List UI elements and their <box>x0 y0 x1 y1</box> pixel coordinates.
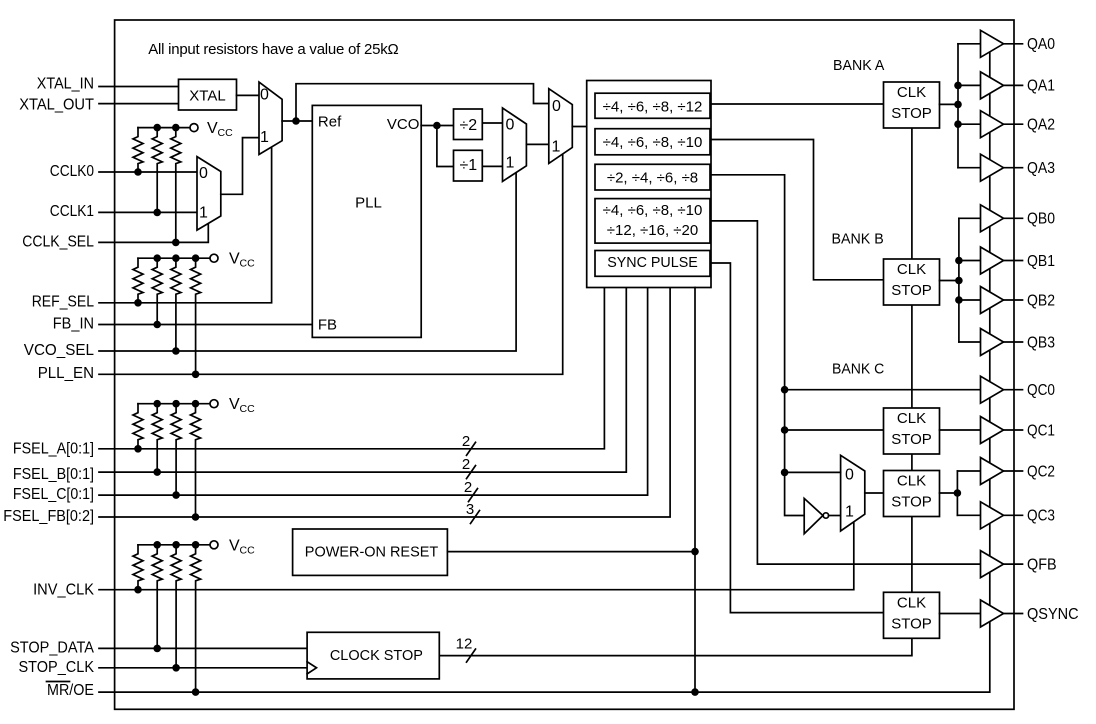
resistor R7 (PLL_EN pull-up) <box>191 258 201 374</box>
svg-text:MR/OE: MR/OE <box>47 682 94 699</box>
wire bank C bus to QC0 buffer <box>785 389 981 391</box>
wire CLK STOP C2 output <box>940 492 958 494</box>
svg-text:BANK A: BANK A <box>833 57 884 74</box>
svg-text:FSEL_FB[0:2]: FSEL_FB[0:2] <box>3 508 94 525</box>
VCC rail 1 <box>138 127 190 129</box>
output buffer QC1 <box>981 417 1023 444</box>
wire inverter output to mux U5 input 1 <box>829 515 841 517</box>
CLK STOP B block <box>884 259 940 305</box>
output buffer QB3 <box>981 329 1023 356</box>
wire Ref node to mux U4 input 0 <box>296 84 549 121</box>
svg-text:XTAL: XTAL <box>189 87 225 104</box>
divider V1 (/2) <box>454 109 483 140</box>
resistor R13 (STOP_DATA pull-up) <box>152 545 162 649</box>
wire bank C bus to CLK STOP C1 <box>785 429 884 431</box>
svg-text:÷4, ÷6, ÷8, ÷12: ÷4, ÷6, ÷8, ÷12 <box>603 98 703 115</box>
resistor R4 (REF_SEL pull-up) <box>133 258 143 303</box>
svg-text:CCLK0: CCLK0 <box>50 163 94 180</box>
bus slash 12 <box>467 649 476 662</box>
svg-text:÷1: ÷1 <box>459 157 477 174</box>
junction bank B bus QB2 <box>955 296 963 304</box>
junction FSEL_C-R10 <box>172 491 180 499</box>
XTAL oscillator block <box>179 79 237 110</box>
svg-text:CC: CC <box>240 258 256 270</box>
svg-text:CC: CC <box>240 544 256 556</box>
svg-text:0: 0 <box>199 165 208 182</box>
svg-text:0: 0 <box>552 98 561 115</box>
wire clock-stop chain B-C1 <box>911 303 913 408</box>
wire mux U5 output to CLK STOP C2 <box>865 492 885 494</box>
junction STOP_DATA-R13 <box>153 645 161 653</box>
output buffer QSYNC <box>981 600 1023 627</box>
svg-text:REF_SEL: REF_SEL <box>32 294 94 311</box>
junction bank C bus - QC0 <box>781 386 789 394</box>
svg-text:1: 1 <box>552 139 561 156</box>
svg-text:0: 0 <box>845 467 854 484</box>
wire MR/OE output-enable line up right side <box>99 51 990 693</box>
svg-text:÷12, ÷16, ÷20: ÷12, ÷16, ÷20 <box>607 222 698 239</box>
output buffer QA3 <box>981 154 1023 181</box>
svg-text:÷4, ÷6, ÷8, ÷10: ÷4, ÷6, ÷8, ÷10 <box>603 202 703 219</box>
junction bank A bus QA1 <box>954 82 962 90</box>
wire FB_IN to PLL FB pin <box>99 324 312 326</box>
divider row B (/4 /6 /8 /10) <box>595 129 710 155</box>
svg-text:XTAL_IN: XTAL_IN <box>37 75 94 92</box>
svg-text:QC3: QC3 <box>1027 508 1055 525</box>
VCC terminal 1 <box>190 120 233 139</box>
junction FSEL_A-R8 <box>134 445 142 453</box>
svg-text:STOP: STOP <box>891 105 932 122</box>
svg-text:1: 1 <box>199 205 208 222</box>
VCC terminal 2 <box>210 251 255 270</box>
svg-text:QB2: QB2 <box>1027 292 1055 309</box>
output buffer QB1 <box>981 247 1023 274</box>
wire VCO node to divider V2 <box>437 126 454 167</box>
junction rail3-R10 <box>172 400 180 408</box>
junction rail1-R3 <box>172 124 180 132</box>
junction bank C bus - QC1 <box>781 426 789 434</box>
wire CCLK1 to mux U2 input 1 <box>99 211 197 213</box>
resistor R10 (FSEL_C pull-up) <box>171 404 181 495</box>
svg-text:CLK: CLK <box>897 473 926 490</box>
svg-text:STOP: STOP <box>891 494 932 511</box>
svg-text:V: V <box>229 251 240 268</box>
svg-text:SYNC PULSE: SYNC PULSE <box>607 255 698 271</box>
SYNC PULSE generator box <box>595 251 710 277</box>
wire clock-stop chain to CLOCK STOP output <box>439 638 912 656</box>
VCC rail 4 <box>138 544 210 546</box>
wire mux U1 output to PLL Ref <box>282 120 312 122</box>
svg-text:FB_IN: FB_IN <box>53 315 94 332</box>
divider bank outer box <box>587 81 711 288</box>
svg-text:CC: CC <box>240 403 256 415</box>
resistor R14 (STOP_CLK pull-up) <box>171 545 181 668</box>
svg-text:VCO_SEL: VCO_SEL <box>24 342 94 359</box>
svg-text:0: 0 <box>506 116 515 133</box>
mux U2 (CCLK0/CCLK1 select) <box>197 157 221 231</box>
svg-text:QC0: QC0 <box>1027 382 1055 399</box>
output buffer QA0 <box>981 30 1023 57</box>
mux U4 (PLL bypass select) <box>549 89 573 164</box>
junction REF_SEL-R4 <box>134 299 142 307</box>
wire clock-stop chain A-B <box>911 128 913 259</box>
wire CLK STOP S output to QSYNC buffer <box>940 613 980 615</box>
wire bank C bus to mux U5 input 0 <box>785 471 841 473</box>
junction VCO_SEL-R6 <box>172 347 180 355</box>
resistor R12 (INV_CLK pull-up) <box>133 545 143 590</box>
junction rail1-R2 <box>153 124 161 132</box>
junction FSEL_FB-R11 <box>192 513 200 521</box>
junction FSEL_B-R9 <box>153 468 161 476</box>
junction bank B bus in <box>955 277 963 285</box>
svg-text:12: 12 <box>456 636 473 653</box>
inverter U7 (INV_CLK path) <box>804 498 828 533</box>
junction bank B bus QB1 <box>955 257 963 265</box>
output buffer QB0 <box>981 205 1023 232</box>
svg-text:QB0: QB0 <box>1027 211 1055 228</box>
junction rail2-R7 <box>192 254 200 262</box>
svg-text:CLK: CLK <box>897 84 926 101</box>
junction CCLK_SEL-R3 <box>172 239 180 247</box>
wire CLK STOP A output <box>940 103 959 105</box>
bus slash FSEL_B <box>467 466 476 479</box>
wire XTAL_IN to XTAL box <box>99 86 179 88</box>
wire CLK STOP C1 output to QC1 buffer <box>940 429 981 431</box>
wire to QB2 buffer <box>959 299 981 301</box>
wire REF_SEL to mux U1 select <box>99 147 272 303</box>
wire clock-stop chain C1-C2 <box>911 454 913 471</box>
device boundary box <box>115 20 1014 709</box>
junction MR/OE-reset <box>691 688 699 696</box>
wire divider B to CLK STOP B <box>711 140 884 280</box>
svg-text:QB1: QB1 <box>1027 253 1055 270</box>
svg-text:3: 3 <box>466 501 474 518</box>
junction node Ref <box>292 117 300 125</box>
wire POR output to reset line <box>447 551 695 553</box>
wire CCLK0 to mux U2 input 0 <box>99 171 197 173</box>
mux U1 (reference select) <box>259 82 282 154</box>
svg-text:1: 1 <box>260 129 269 146</box>
wire to QC3 buffer <box>957 514 980 516</box>
wire mux U3 output to mux U4 input 1 <box>526 143 548 145</box>
output buffer QFB <box>981 551 1023 578</box>
svg-text:CLK: CLK <box>897 261 926 278</box>
resistor R15 (MR/OE pull-up) <box>191 545 201 692</box>
svg-text:CC: CC <box>218 127 234 139</box>
overline for MR in MR/OE label <box>47 681 70 683</box>
svg-text:FB: FB <box>318 317 337 334</box>
wire /1 to mux U3 input 1 <box>483 165 503 167</box>
wire STOP_DATA to CLOCK STOP block <box>99 647 307 649</box>
svg-text:QA0: QA0 <box>1027 36 1055 53</box>
svg-text:1: 1 <box>506 155 515 172</box>
wire to QC2 buffer <box>957 470 980 472</box>
wire XTAL to mux U1 input 0 <box>237 94 260 96</box>
VCC terminal 3 <box>210 396 255 415</box>
svg-text:÷2, ÷4, ÷6, ÷8: ÷2, ÷4, ÷6, ÷8 <box>607 170 698 187</box>
VCC rail 3 <box>138 403 210 405</box>
junction bank C2 bus in <box>954 489 962 497</box>
svg-text:V: V <box>229 537 240 554</box>
wire SYNC PULSE to CLK STOP S <box>711 263 884 613</box>
CLK STOP S block (QSYNC) <box>884 592 940 638</box>
output buffer QA1 <box>981 72 1023 99</box>
CLK STOP C2 block <box>884 471 940 517</box>
divider row A (/4 /6 /8 /12) <box>595 93 710 118</box>
svg-text:XTAL_OUT: XTAL_OUT <box>19 97 94 114</box>
svg-text:QB3: QB3 <box>1027 334 1055 351</box>
svg-text:STOP: STOP <box>891 282 932 299</box>
svg-text:QA2: QA2 <box>1027 117 1055 134</box>
bus slash FSEL_C <box>469 489 478 502</box>
junction bank A bus QA2 <box>954 120 962 128</box>
junction MR/OE-R15 <box>192 688 200 696</box>
svg-text:1: 1 <box>845 504 854 521</box>
output buffer QC3 <box>981 502 1023 529</box>
svg-text:FSEL_B[0:1]: FSEL_B[0:1] <box>13 466 94 483</box>
bus slash FSEL_FB <box>471 511 480 524</box>
junction STOP_CLK-R14 <box>172 664 180 672</box>
junction rail2-R5 <box>153 254 161 262</box>
wire PLL_EN to mux U4 select <box>99 154 563 374</box>
output buffer QC2 <box>981 458 1023 485</box>
svg-text:QFB: QFB <box>1027 556 1057 573</box>
svg-text:Ref: Ref <box>318 114 342 131</box>
svg-text:CCLK1: CCLK1 <box>50 203 94 220</box>
svg-text:STOP: STOP <box>891 431 932 448</box>
junction INV_CLK-R12 <box>134 586 142 594</box>
svg-text:÷2: ÷2 <box>459 117 477 134</box>
wire to QA3 buffer <box>958 167 981 169</box>
mux U3 (VCO divider select) <box>503 108 527 181</box>
wire to QB3 buffer <box>959 341 981 343</box>
wire bus FSEL_A[0:1] to divider bank <box>99 288 604 449</box>
divider row FB (/4../20) <box>595 199 710 244</box>
svg-text:POWER-ON RESET: POWER-ON RESET <box>305 543 438 560</box>
mux U5 (QC2/QC3 invert select) <box>841 455 865 531</box>
wire divider A to CLK STOP A <box>711 103 884 105</box>
junction rail3-R11 <box>192 400 200 408</box>
wire bank A buffer bus <box>957 44 959 168</box>
wire mux U4 output to divider bank <box>572 126 586 128</box>
CLK STOP A block <box>884 82 940 128</box>
svg-text:PLL_EN: PLL_EN <box>38 365 94 382</box>
svg-text:FSEL_C[0:1]: FSEL_C[0:1] <box>13 486 94 503</box>
svg-text:2: 2 <box>462 456 470 473</box>
svg-text:BANK C: BANK C <box>832 360 884 377</box>
wire bus FSEL_B[0:1] to divider bank <box>99 288 626 473</box>
CLOCK STOP block <box>307 632 439 679</box>
wire to QB0 buffer <box>959 217 981 219</box>
divider row C (/2 /4 /6 /8) <box>595 164 710 190</box>
svg-text:PLL: PLL <box>355 195 382 212</box>
PLL block U6 <box>312 105 421 337</box>
wire clock-stop chain C2-S <box>911 516 913 592</box>
resistor R9 (FSEL_B pull-up) <box>152 404 162 472</box>
wire STOP_CLK to CLOCK STOP block <box>99 667 307 669</box>
svg-text:CLOCK STOP: CLOCK STOP <box>330 647 423 664</box>
resistor R3 (CCLK_SEL pull-up) <box>171 128 181 243</box>
junction bank C bus - mux U5 <box>781 469 789 477</box>
svg-text:V: V <box>229 396 240 413</box>
resistor R5 (FB_IN pull-up) <box>152 258 162 324</box>
CLK STOP C1 block <box>884 408 940 454</box>
wire bus FSEL_FB[0:2] to divider bank <box>99 288 670 518</box>
bus slash FSEL_A <box>467 442 476 455</box>
svg-text:QC2: QC2 <box>1027 463 1055 480</box>
junction CCLK0-R1 <box>134 168 142 176</box>
junction rail4-R13 <box>153 541 161 549</box>
svg-text:BANK B: BANK B <box>832 231 884 248</box>
svg-text:CLK: CLK <box>897 594 926 611</box>
svg-text:CCLK_SEL: CCLK_SEL <box>22 233 94 250</box>
svg-text:All input resistors have a val: All input resistors have a value of 25kΩ <box>148 41 399 58</box>
POWER-ON RESET block <box>293 529 448 575</box>
wire QC2/QC3 bus <box>956 471 958 515</box>
wire bank B buffer bus <box>958 218 960 342</box>
wire to QA2 buffer <box>958 123 981 125</box>
resistor R2 (CCLK1 pull-up) <box>152 128 162 213</box>
resistor R8 (FSEL_A pull-up) <box>133 404 143 449</box>
output buffer QC0 <box>981 376 1023 403</box>
output buffer QB2 <box>981 287 1023 314</box>
wire divider FB to QFB buffer <box>711 221 981 564</box>
wire to QA1 buffer <box>958 84 981 86</box>
resistor R11 (FSEL_FB pull-up) <box>191 404 201 517</box>
svg-text:2: 2 <box>462 433 470 450</box>
wire mux U2 output to mux U1 input 1 <box>221 138 259 195</box>
wire to QA0 buffer <box>958 43 981 45</box>
resistor R1 (CCLK0 pull-up) <box>133 128 143 172</box>
wire to QB1 buffer <box>959 260 981 262</box>
VCC terminal 4 <box>210 537 255 556</box>
junction CCLK1-R2 <box>153 209 161 217</box>
wire CCLK_SEL to mux U2 select <box>99 224 208 243</box>
svg-text:0: 0 <box>260 86 269 103</box>
wire VCO_SEL to mux U3 select <box>99 172 516 351</box>
VCC rail 2 <box>138 257 210 259</box>
wire INV_CLK to mux U5 select <box>99 521 854 590</box>
junction rail2-R6 <box>172 254 180 262</box>
output buffer QA2 <box>981 111 1023 138</box>
svg-text:FSEL_A[0:1]: FSEL_A[0:1] <box>13 440 94 457</box>
junction FB_IN-R5 <box>153 321 161 329</box>
svg-text:STOP: STOP <box>891 615 932 632</box>
svg-text:STOP_DATA: STOP_DATA <box>10 639 94 656</box>
wire /2 to mux U3 input 0 <box>483 122 503 124</box>
divider V2 (/1) <box>454 150 483 181</box>
svg-text:INV_CLK: INV_CLK <box>33 582 94 599</box>
svg-text:QA1: QA1 <box>1027 78 1055 95</box>
wire divider C to bank C bus and inverter <box>711 175 804 516</box>
wire CLK STOP B output <box>940 280 959 282</box>
CLOCK STOP clock input wedge <box>307 662 316 674</box>
svg-text:QC1: QC1 <box>1027 422 1055 439</box>
svg-text:CLK: CLK <box>897 410 926 427</box>
svg-text:÷4, ÷6, ÷8, ÷10: ÷4, ÷6, ÷8, ÷10 <box>603 134 703 151</box>
wire XTAL_OUT to XTAL box <box>99 103 179 105</box>
svg-text:VCO: VCO <box>387 116 420 133</box>
junction POR-reset <box>691 548 699 556</box>
svg-text:STOP_CLK: STOP_CLK <box>19 659 95 676</box>
junction rail4-R14 <box>172 541 180 549</box>
svg-text:V: V <box>207 120 218 137</box>
wire PLL VCO output <box>421 125 454 127</box>
junction PLL_EN-R7 <box>192 371 200 379</box>
wire bus FSEL_C[0:1] to divider bank <box>99 288 648 496</box>
junction rail3-R9 <box>153 400 161 408</box>
svg-text:2: 2 <box>464 479 472 496</box>
resistor R6 (VCO_SEL pull-up) <box>171 258 181 351</box>
wire divider reset line <box>694 288 696 693</box>
junction VCO node <box>433 122 441 130</box>
junction bank A bus in <box>954 101 962 109</box>
svg-text:QSYNC: QSYNC <box>1027 606 1079 623</box>
junction rail4-R15 <box>192 541 200 549</box>
svg-text:QA3: QA3 <box>1027 160 1055 177</box>
